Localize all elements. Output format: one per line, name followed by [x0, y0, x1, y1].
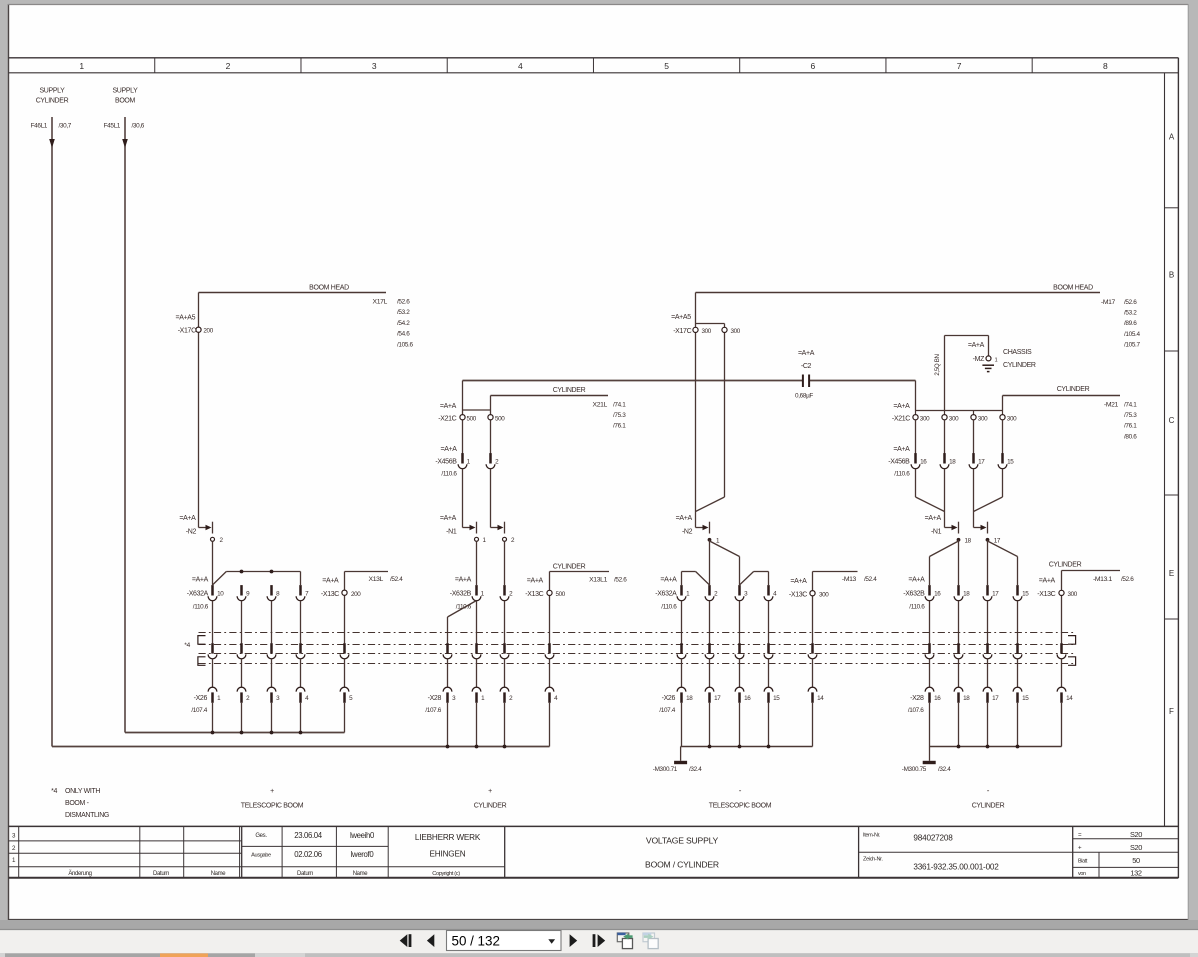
svg-text:300: 300 — [978, 416, 988, 423]
svg-text:Item-Nr.: Item-Nr. — [863, 833, 881, 839]
junction — [767, 745, 771, 749]
svg-text:BOOM HEAD: BOOM HEAD — [309, 285, 349, 292]
svg-text:15: 15 — [1022, 591, 1029, 598]
pin 18 junction of -N1 — [957, 538, 972, 545]
svg-text:-C2: -C2 — [801, 363, 812, 370]
svg-text:-N2: -N2 — [682, 528, 693, 535]
svg-text:/107.4: /107.4 — [659, 707, 675, 714]
boundary dash-dot line 3 — [199, 653, 1076, 655]
svg-text:/52.4: /52.4 — [864, 576, 877, 583]
svg-text:/105.7: /105.7 — [1124, 342, 1140, 349]
bus BOOM HEAD right, net -M17 — [696, 285, 1141, 349]
svg-text:=A+A: =A+A — [440, 515, 457, 522]
connector -X13C pin 500 group2 — [525, 572, 565, 644]
svg-text:/74.1: /74.1 — [1124, 401, 1137, 408]
bus CYLINDER small, net X13L /52.4 — [345, 572, 404, 583]
svg-text:14: 14 — [1066, 695, 1073, 702]
svg-text:-M300.71: -M300.71 — [653, 766, 678, 773]
svg-text:02.02.06: 02.02.06 — [294, 850, 322, 859]
ground -MZ chassis cylinder — [968, 342, 1036, 372]
svg-text:17: 17 — [714, 695, 721, 702]
svg-text:F: F — [1169, 707, 1174, 716]
svg-text:SUPPLY: SUPPLY — [39, 88, 65, 95]
svg-text:/107.4: /107.4 — [191, 707, 207, 714]
svg-text:/110.6: /110.6 — [661, 604, 677, 611]
svg-text:=A+A: =A+A — [893, 446, 910, 453]
bus BOOM HEAD left, net X17L — [199, 285, 414, 349]
svg-text:=A+A: =A+A — [192, 576, 209, 583]
svg-text:=A+A: =A+A — [790, 578, 807, 585]
pin 2 of -N2 — [211, 537, 224, 544]
svg-text:Copyright (c): Copyright (c) — [432, 871, 460, 877]
svg-text:18: 18 — [963, 695, 970, 702]
svg-text:BOOM / CYLINDER: BOOM / CYLINDER — [645, 860, 719, 870]
svg-text:/52.6: /52.6 — [614, 577, 627, 584]
junction — [1016, 745, 1020, 749]
svg-text:2: 2 — [226, 61, 231, 71]
svg-text:X17L: X17L — [373, 299, 388, 306]
wires crossing to bottom connectors — [213, 659, 1062, 688]
svg-text:/110.6: /110.6 — [894, 471, 910, 478]
caption - cylinder — [972, 786, 1005, 809]
svg-text:=A+A: =A+A — [179, 515, 196, 522]
svg-text:-MZ: -MZ — [973, 356, 985, 363]
svg-text:/110.6: /110.6 — [909, 604, 925, 611]
svg-text:Ausgabe: Ausgabe — [251, 852, 271, 858]
svg-text:-N1: -N1 — [931, 528, 942, 535]
svg-text:A: A — [1169, 133, 1175, 142]
wire bus to -X17C group3 — [696, 293, 725, 528]
svg-text:18: 18 — [965, 538, 972, 545]
svg-text:/80.6: /80.6 — [1124, 433, 1137, 440]
svg-text:=A+A: =A+A — [527, 578, 544, 585]
svg-text:3: 3 — [372, 61, 377, 71]
pin 1 junction of -N2 group3 — [708, 538, 720, 545]
svg-text:6: 6 — [811, 61, 816, 71]
svg-text:5: 5 — [664, 61, 669, 71]
svg-text:18: 18 — [949, 458, 956, 465]
connector -X632A /110.6 pins 1 2 3 4 group3 — [655, 576, 777, 610]
wires -X456B merge to -N1 group4 — [916, 469, 1003, 528]
svg-text:-M21: -M21 — [1104, 401, 1119, 408]
plug -N1 group4 — [925, 515, 988, 535]
bus ground group3 — [681, 746, 813, 748]
svg-text:-X13C: -X13C — [1037, 591, 1055, 598]
svg-text:/32.4: /32.4 — [689, 766, 702, 773]
svg-text:200: 200 — [203, 328, 213, 335]
svg-text:-X13C: -X13C — [789, 592, 807, 599]
wire -X632B.1 branch diagonal to -X28.3 — [448, 601, 477, 644]
svg-text:=A+A: =A+A — [440, 403, 457, 410]
svg-text:/54.6: /54.6 — [397, 331, 410, 338]
svg-text:F46L1: F46L1 — [31, 122, 48, 129]
junction — [446, 745, 450, 749]
svg-text:BOOM: BOOM — [115, 98, 136, 105]
svg-text:17: 17 — [978, 458, 985, 465]
svg-text:Blatt: Blatt — [1078, 859, 1088, 865]
svg-text:S20: S20 — [1130, 830, 1142, 839]
svg-text:Datum: Datum — [297, 871, 313, 877]
svg-text:*4: *4 — [184, 642, 190, 649]
junction — [270, 731, 274, 735]
wires -X632A to boundary crossing group3 — [682, 601, 769, 644]
svg-text:1: 1 — [995, 357, 998, 363]
connector -X21C pins 300 300 300 300 group4 — [892, 403, 1017, 423]
connector -X21C pins 500 500 — [438, 403, 505, 423]
svg-text:=A+A: =A+A — [322, 577, 339, 584]
svg-text:CYLINDER: CYLINDER — [972, 803, 1005, 810]
svg-text:/52.6: /52.6 — [1124, 299, 1137, 306]
svg-text:-X632A: -X632A — [655, 591, 677, 598]
wire bus to -X21C group2 — [463, 381, 491, 454]
svg-text:-M300.75: -M300.75 — [902, 766, 927, 773]
svg-text:-X26: -X26 — [662, 695, 676, 702]
connector -X13C pin 200 group1 — [321, 572, 361, 644]
svg-text:18: 18 — [963, 591, 970, 598]
svg-text:18: 18 — [686, 695, 693, 702]
svg-text:/105.6: /105.6 — [397, 341, 413, 348]
svg-text:/105.4: /105.4 — [1124, 331, 1140, 338]
wires -X632A to boundary crossing group1 — [213, 601, 301, 644]
junction — [708, 745, 712, 749]
svg-text:*4: *4 — [51, 788, 57, 795]
bus CYLINDER small, net -M13.1 /52.6 — [1049, 562, 1135, 583]
svg-text:16: 16 — [934, 591, 941, 598]
svg-text:X13L1: X13L1 — [589, 577, 607, 584]
bracket right — [1068, 636, 1076, 666]
svg-text:50: 50 — [1132, 856, 1140, 865]
note *4 bracket left — [184, 636, 205, 666]
connector -X456B /110.6 pins 1 2 group2 — [435, 446, 499, 478]
svg-text:1: 1 — [79, 61, 84, 71]
svg-text:/30,7: /30,7 — [59, 122, 72, 129]
caption - telescopic boom — [709, 786, 772, 809]
svg-text:16: 16 — [920, 458, 927, 465]
junction — [738, 745, 742, 749]
bus CYLINDER small, net X13L1 /52.6 — [550, 563, 628, 583]
svg-text:300: 300 — [920, 416, 930, 423]
svg-text:/110.6: /110.6 — [441, 471, 457, 478]
bus voltage supply horizontal, to chassis row — [463, 380, 916, 382]
bus over -X632A group1 — [213, 572, 301, 586]
svg-text:17: 17 — [994, 538, 1001, 545]
svg-text:17: 17 — [992, 695, 999, 702]
svg-text:-X17C: -X17C — [178, 328, 196, 335]
svg-text:CYLINDER: CYLINDER — [553, 563, 586, 570]
svg-text:500: 500 — [495, 416, 505, 423]
junction — [211, 731, 215, 735]
bus row -X21C group4 — [916, 381, 1003, 415]
boundary dash-dot line 2 — [199, 644, 1076, 646]
svg-text:TELESCOPIC BOOM: TELESCOPIC BOOM — [709, 803, 772, 810]
svg-text:DISMANTLING: DISMANTLING — [65, 812, 109, 819]
svg-text:-X28: -X28 — [910, 695, 924, 702]
junction — [503, 745, 507, 749]
svg-text:-X26: -X26 — [194, 695, 208, 702]
svg-text:/30,6: /30,6 — [132, 122, 145, 129]
svg-text:/53.2: /53.2 — [1124, 310, 1137, 317]
svg-text:16: 16 — [934, 695, 941, 702]
plug -N2 group3 — [676, 515, 710, 535]
pin 2 of -N1 — [503, 537, 516, 544]
boundary dash-dot line 1 — [199, 632, 1076, 634]
svg-text:=A+A: =A+A — [968, 342, 985, 349]
svg-text:X21L: X21L — [593, 401, 608, 408]
svg-text:23.06.04: 23.06.04 — [294, 831, 323, 840]
svg-text:16: 16 — [744, 695, 751, 702]
svg-text:-X632B: -X632B — [450, 591, 472, 598]
svg-text:/107.6: /107.6 — [425, 707, 441, 714]
svg-text:VOLTAGE SUPPLY: VOLTAGE SUPPLY — [646, 836, 719, 846]
bus ground group4 — [930, 746, 1062, 748]
svg-text:300: 300 — [1068, 591, 1078, 598]
svg-text:C: C — [1169, 416, 1175, 425]
svg-text:/75.3: /75.3 — [613, 412, 626, 419]
svg-text:CYLINDER: CYLINDER — [553, 387, 586, 394]
boundary crossing contacts (all wires) — [208, 643, 1066, 659]
svg-text:/32.4: /32.4 — [938, 766, 951, 773]
svg-text:Änderung: Änderung — [68, 870, 91, 877]
svg-text:15: 15 — [1007, 458, 1014, 465]
svg-text:/53.2: /53.2 — [397, 309, 410, 316]
bus supply boom bottom — [125, 732, 345, 734]
svg-text:-X632A: -X632A — [187, 591, 209, 598]
svg-text:-X28: -X28 — [428, 695, 442, 702]
wires -N1 to -X632B group2 — [477, 541, 505, 585]
connector -X17C pin 200 — [176, 314, 214, 334]
svg-text:LIEBHERR WERK: LIEBHERR WERK — [415, 833, 481, 842]
svg-text:500: 500 — [556, 591, 566, 598]
svg-text:-N2: -N2 — [186, 528, 197, 535]
wires -X456B to -N1 group2 — [463, 469, 491, 528]
svg-text:=A+A: =A+A — [908, 576, 925, 583]
svg-text:CYLINDER: CYLINDER — [474, 803, 507, 810]
connector -X13C pin 300 group4 — [1037, 571, 1077, 644]
svg-text:-X456B: -X456B — [888, 458, 910, 465]
wires -N1 fanout to -X632B group4 — [930, 540, 1018, 585]
wire supply-boom feed F45L1, col 1 — [122, 117, 128, 733]
junction — [270, 570, 274, 574]
svg-text:14: 14 — [817, 695, 824, 702]
svg-text:+: + — [270, 788, 274, 795]
svg-text:=A+A5: =A+A5 — [176, 314, 196, 321]
junction — [475, 745, 479, 749]
svg-text:=A+A: =A+A — [440, 446, 457, 453]
svg-text:500: 500 — [467, 416, 477, 423]
svg-text:-X21C: -X21C — [892, 416, 910, 423]
svg-text:-M13: -M13 — [842, 576, 857, 583]
svg-text:300: 300 — [731, 328, 741, 335]
svg-text:-X632B: -X632B — [903, 591, 925, 598]
svg-text:BOOM -: BOOM - — [65, 800, 90, 807]
bus net -M13 /52.4 — [813, 572, 878, 584]
svg-text:/76.1: /76.1 — [613, 423, 626, 430]
svg-text:15: 15 — [1022, 695, 1029, 702]
svg-text:2,5Q BN: 2,5Q BN — [934, 354, 941, 375]
connector -X28 /107.6 pins 16 18 17 15 14 group4 — [908, 687, 1073, 714]
connector -X632A /110.6 pins 10 9 8 7 — [187, 576, 309, 610]
svg-text:+: + — [488, 788, 492, 795]
svg-text:B: B — [1169, 271, 1174, 280]
capacitor -C2 0,68uF — [795, 350, 815, 400]
note *4 only with boom dismantling — [51, 788, 109, 819]
svg-text:=A+A: =A+A — [893, 403, 910, 410]
connector -X632B /110.6 pins 16 18 17 15 group4 — [903, 576, 1029, 610]
bus supply cylinder bottom — [52, 746, 550, 748]
svg-text:=A+A: =A+A — [660, 576, 677, 583]
connector -X17C pins 300 300 group3 — [671, 314, 741, 335]
wires bottom connectors to bus group3 — [682, 703, 813, 747]
svg-text:/75.3: /75.3 — [1124, 412, 1137, 419]
svg-text:Ges.: Ges. — [255, 833, 267, 839]
svg-text:ONLY WITH: ONLY WITH — [65, 788, 100, 795]
svg-text:CYLINDER: CYLINDER — [36, 98, 69, 105]
svg-text:=A+A5: =A+A5 — [671, 314, 691, 321]
svg-text:F45L1: F45L1 — [104, 122, 121, 129]
svg-text:50 / 132: 50 / 132 — [452, 934, 500, 949]
svg-text:/52.4: /52.4 — [390, 576, 403, 583]
svg-text:/89.6: /89.6 — [1124, 320, 1137, 327]
svg-text:132: 132 — [1130, 868, 1142, 877]
wire bus to connector -X17C — [198, 293, 200, 528]
svg-text:0,68µF: 0,68µF — [795, 393, 813, 400]
svg-text:10: 10 — [217, 591, 224, 598]
wires bottom connectors to bus group1 — [213, 703, 345, 733]
junction — [240, 570, 244, 574]
svg-text:lweeih0: lweeih0 — [350, 831, 375, 840]
svg-text:Zeich-Nr.: Zeich-Nr. — [863, 857, 883, 863]
svg-text:/74.1: /74.1 — [613, 401, 626, 408]
svg-text:17: 17 — [992, 591, 999, 598]
svg-text:/107.6: /107.6 — [908, 707, 924, 714]
wire supply-cylinder feed F46L1, col 1 — [49, 117, 55, 747]
boundary dash-dot line 4 — [199, 663, 1076, 665]
svg-text:CYLINDER: CYLINDER — [1003, 362, 1036, 369]
pin 17 junction of -N1 — [986, 538, 1001, 545]
bus CYLINDER right, net -M21 — [1003, 386, 1138, 440]
connector -X28 /107.6 pins 3 1 2 4 group2 — [425, 687, 558, 714]
label supply boom — [104, 88, 145, 130]
svg-text:Name: Name — [211, 871, 227, 877]
svg-text:/54.2: /54.2 — [397, 320, 410, 327]
svg-text:/110.6: /110.6 — [193, 604, 209, 611]
wires -N2 fanout to -X632A group3 — [682, 540, 769, 585]
wires -X632B to boundary crossing group2 — [477, 601, 505, 644]
svg-text:/52.6: /52.6 — [1121, 576, 1134, 583]
wires bottom connectors to bus group4 — [930, 703, 1062, 747]
svg-text:-M13.1: -M13.1 — [1093, 576, 1113, 583]
ground -M300.71 /32.4 — [653, 747, 702, 774]
svg-text:-M17: -M17 — [1101, 299, 1116, 306]
caption + telescopic boom — [241, 788, 304, 809]
wires -X632B to boundary crossing group4 — [930, 601, 1018, 644]
svg-text:von: von — [1078, 871, 1086, 877]
svg-text:=A+A: =A+A — [455, 576, 472, 583]
svg-text:=A+A: =A+A — [798, 350, 815, 357]
junction — [240, 731, 244, 735]
wires -X21C to -X456B group4 — [916, 420, 1003, 454]
svg-text:-X17C: -X17C — [673, 328, 691, 335]
junction — [299, 731, 303, 735]
label supply cylinder — [31, 88, 72, 130]
svg-text:300: 300 — [819, 592, 829, 599]
svg-text:TELESCOPIC BOOM: TELESCOPIC BOOM — [241, 803, 304, 810]
svg-text:8: 8 — [1103, 61, 1108, 71]
svg-text:X13L: X13L — [369, 576, 384, 583]
junction — [986, 745, 990, 749]
connector -X456B /110.6 pins 16 18 17 15 group4 — [888, 446, 1014, 478]
junction — [957, 745, 961, 749]
svg-text:/76.1: /76.1 — [1124, 423, 1137, 430]
bus CYLINDER group2, net X21L — [491, 387, 627, 430]
pin 1 of -N1 — [475, 537, 487, 544]
svg-text:SUPPLY: SUPPLY — [112, 88, 138, 95]
plug -N2 group1 — [179, 515, 212, 535]
wire -N2 to -X632A.10 — [212, 541, 214, 585]
svg-text:-X456B: -X456B — [435, 458, 457, 465]
svg-text:7: 7 — [957, 61, 962, 71]
plug -N1 group2 — [440, 515, 505, 535]
svg-text:=A+A: =A+A — [676, 515, 693, 522]
wires bottom connectors to bus group2 — [448, 703, 550, 747]
svg-text:=A+A: =A+A — [925, 515, 942, 522]
svg-text:lwerof0: lwerof0 — [351, 850, 375, 859]
connector -X632B /110.6 pins 1 2 group2 — [450, 576, 513, 610]
svg-text:300: 300 — [949, 416, 959, 423]
svg-text:300: 300 — [1007, 416, 1017, 423]
svg-text:-X13C: -X13C — [525, 591, 543, 598]
svg-text:=A+A: =A+A — [1039, 578, 1056, 585]
wire 2,5q BN to chassis ground — [934, 336, 989, 411]
connector -X26 /107.4 pins 18 17 16 15 14 group3 — [659, 687, 824, 714]
svg-text:Datum: Datum — [153, 871, 169, 877]
svg-text:CHASSIS: CHASSIS — [1003, 349, 1032, 356]
svg-text:3361-932.35.00.001-002: 3361-932.35.00.001-002 — [913, 863, 999, 872]
svg-text:EHINGEN: EHINGEN — [430, 850, 466, 859]
svg-text:CYLINDER: CYLINDER — [1057, 386, 1090, 393]
svg-text:-N1: -N1 — [446, 528, 457, 535]
svg-text:BOOM HEAD: BOOM HEAD — [1053, 285, 1093, 292]
svg-text:200: 200 — [351, 591, 361, 598]
svg-text:-X13C: -X13C — [321, 591, 339, 598]
connector -X13C pin 300 group3 — [789, 572, 829, 644]
ground -M300.75 /32.4 — [902, 747, 951, 774]
svg-text:S20: S20 — [1130, 843, 1142, 852]
svg-text:/52.6: /52.6 — [397, 299, 410, 306]
svg-text:4: 4 — [518, 61, 523, 71]
svg-text:Name: Name — [353, 871, 369, 877]
caption + cylinder — [474, 788, 507, 809]
svg-text:E: E — [1169, 569, 1174, 578]
svg-text:300: 300 — [702, 328, 712, 335]
svg-text:-X21C: -X21C — [438, 416, 456, 423]
svg-text:984027208: 984027208 — [913, 834, 953, 843]
svg-text:CYLINDER: CYLINDER — [1049, 562, 1082, 569]
svg-text:15: 15 — [773, 695, 780, 702]
connector -X26 /107.4 pins 1 2 3 4 5 group1 — [191, 687, 353, 714]
